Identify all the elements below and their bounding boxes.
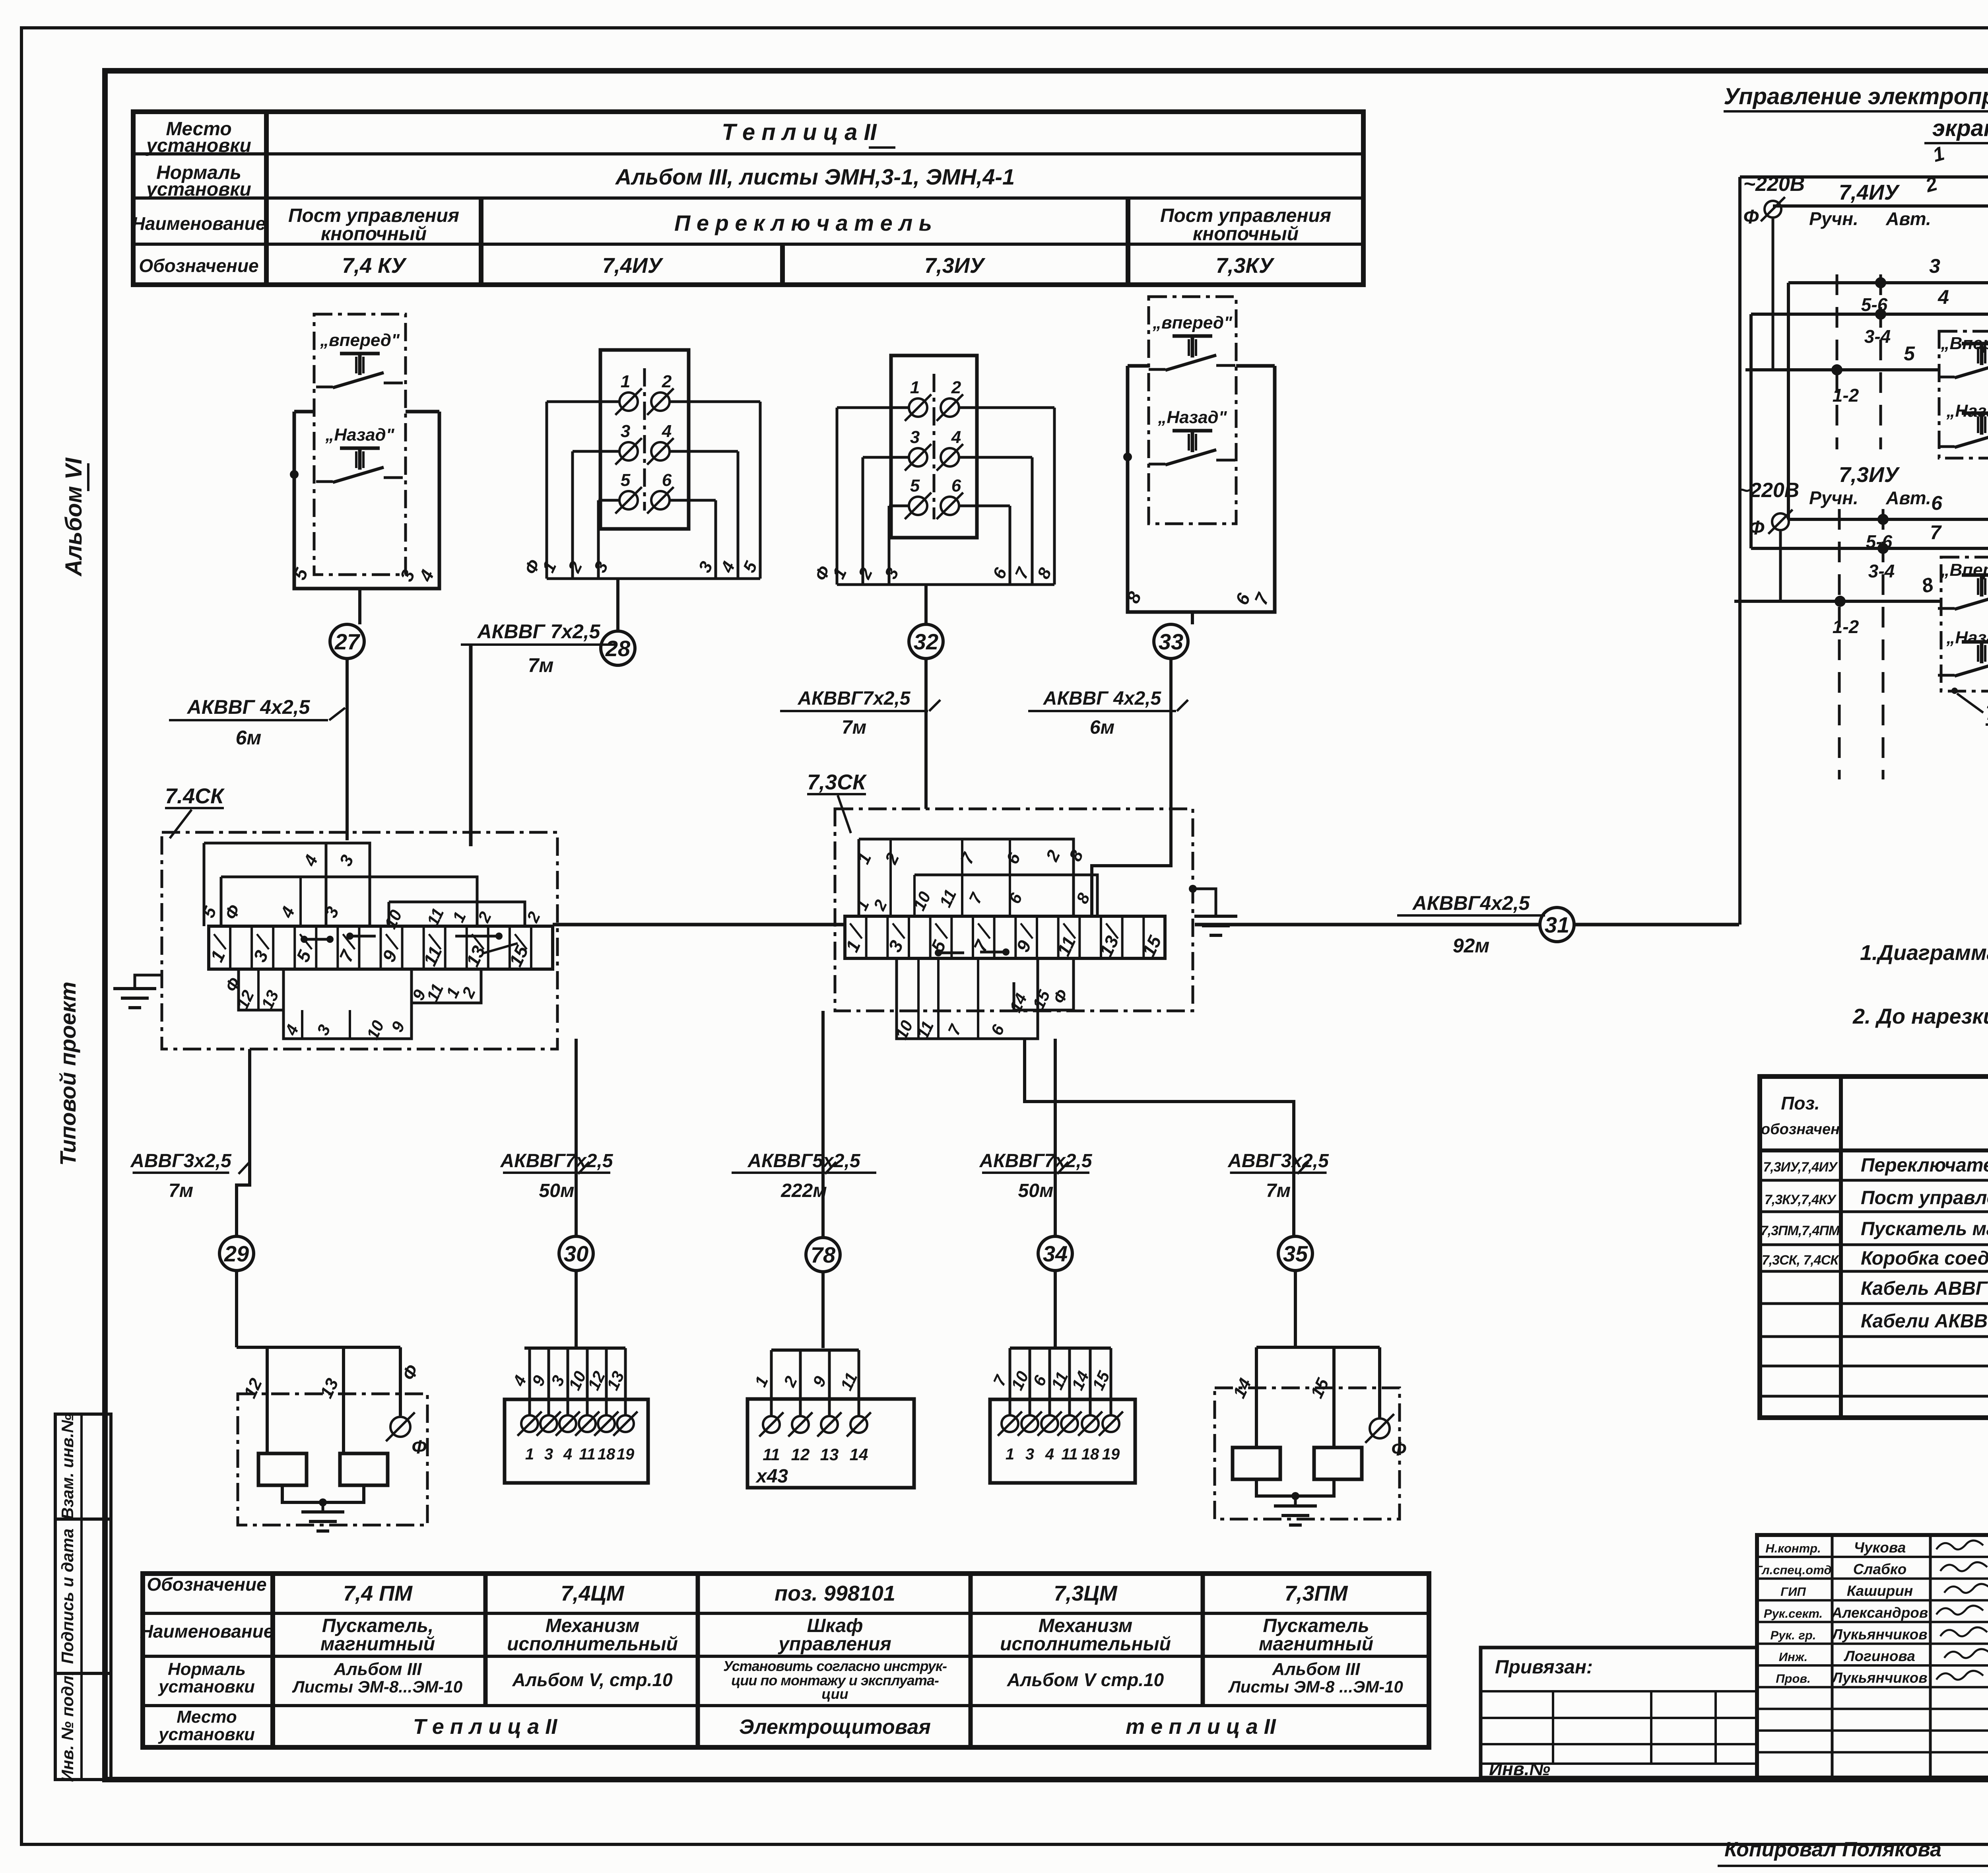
svg-text:19: 19 [617, 1446, 635, 1463]
svg-text:Пров.: Пров. [1776, 1672, 1811, 1686]
svg-text:АВВГ3х2,5: АВВГ3х2,5 [1227, 1150, 1329, 1172]
svg-text:Н.контр.: Н.контр. [1765, 1541, 1821, 1555]
svg-text:АКВВГ 4х2,5: АКВВГ 4х2,5 [1043, 688, 1162, 709]
svg-text:ции: ции [821, 1686, 848, 1702]
svg-text:7м: 7м [842, 717, 866, 738]
svg-text:3: 3 [910, 427, 920, 447]
svg-text:Коробка соединительная КСК-16: Коробка соединительная КСК-16ТУ36.1073-7… [1861, 1248, 1988, 1269]
svg-text:7м: 7м [528, 654, 554, 676]
svg-text:Кабель АВВГ 3х2,5 ГОСТ 1644: Кабель АВВГ 3х2,5 ГОСТ 16442-80 [1861, 1278, 1988, 1299]
svg-text:АВВГ3х2,5: АВВГ3х2,5 [130, 1150, 232, 1172]
svg-text:„вперед": „вперед" [1152, 313, 1233, 332]
svg-text:27: 27 [334, 629, 361, 654]
svg-text:7,4ИУ: 7,4ИУ [1839, 181, 1900, 204]
svg-text:экрана: экрана [1932, 115, 1988, 141]
svg-text:Авт.: Авт. [1885, 208, 1931, 229]
svg-text:Ф: Ф [1743, 206, 1759, 228]
svg-text:50м: 50м [1018, 1180, 1054, 1201]
svg-text:ГИП: ГИП [1780, 1585, 1806, 1599]
svg-text:установки: установки [158, 1677, 255, 1696]
svg-text:18: 18 [598, 1446, 615, 1463]
svg-text:Привязан:: Привязан: [1495, 1657, 1593, 1678]
svg-text:АКВВГ 7х2,5: АКВВГ 7х2,5 [477, 620, 601, 643]
svg-text:7,4ЦМ: 7,4ЦМ [561, 1582, 624, 1605]
svg-text:78: 78 [811, 1242, 836, 1267]
svg-text:АКВВГ5х2,5: АКВВГ5х2,5 [747, 1150, 860, 1172]
svg-text:Инв. № подл.: Инв. № подл. [58, 1671, 77, 1782]
svg-text:Место: Место [177, 1707, 237, 1727]
svg-text:4: 4 [951, 427, 961, 447]
svg-text:исполнительный: исполнительный [507, 1634, 678, 1655]
svg-text:Обозначение: Обозначение [147, 1574, 266, 1595]
svg-text:1-2: 1-2 [1833, 385, 1859, 406]
svg-text:7,3КУ: 7,3КУ [1216, 254, 1275, 278]
svg-text:Альбом III: Альбом III [1272, 1659, 1361, 1679]
svg-text:7,3ИУ,7,4ИУ: 7,3ИУ,7,4ИУ [1763, 1160, 1838, 1175]
svg-text:Инв.№: Инв.№ [1489, 1758, 1550, 1779]
svg-text:Обозначение: Обозначение [139, 255, 258, 276]
svg-text:5: 5 [910, 476, 920, 495]
svg-text:магнитный: магнитный [320, 1634, 435, 1655]
svg-text:7м: 7м [1266, 1180, 1291, 1201]
svg-text:1: 1 [621, 372, 630, 391]
svg-text:7,3ЦМ: 7,3ЦМ [1054, 1582, 1117, 1605]
svg-text:7,3ИУ: 7,3ИУ [1839, 463, 1900, 487]
svg-text:Пост управления кнопочный ПК: Пост управления кнопочный ПКЕ 222-2 [1861, 1187, 1988, 1209]
svg-text:7,3КУ: 7,3КУ [1986, 702, 1988, 724]
svg-text:поз. 998101: поз. 998101 [775, 1582, 895, 1605]
svg-text:7,4ИУ: 7,4ИУ [602, 254, 664, 278]
svg-text:50м: 50м [539, 1180, 575, 1201]
svg-text:1.Диаграмма работы переключате: 1.Диаграмма работы переключателей дана н… [1860, 941, 1988, 965]
svg-text:„Назад": „Назад" [1157, 408, 1227, 427]
svg-text:6м: 6м [236, 727, 262, 749]
svg-text:Поз.: Поз. [1781, 1093, 1819, 1113]
svg-text:6м: 6м [1090, 717, 1114, 738]
svg-text:6: 6 [1931, 492, 1943, 514]
svg-text:установки: установки [146, 179, 251, 200]
svg-text:Рук.сект.: Рук.сект. [1764, 1607, 1823, 1620]
svg-text:4: 4 [1045, 1446, 1054, 1463]
svg-text:Т е п л и ц а II: Т е п л и ц а II [722, 119, 877, 145]
svg-text:Альбом VI: Альбом VI [61, 457, 87, 577]
svg-text:Логинова: Логинова [1843, 1648, 1915, 1664]
svg-text:Листы ЭМ-8...ЭМ-10: Листы ЭМ-8...ЭМ-10 [292, 1677, 462, 1696]
svg-text:магнитный: магнитный [1259, 1634, 1373, 1655]
svg-text:4: 4 [662, 422, 672, 441]
svg-text:Электрощитовая: Электрощитовая [739, 1716, 931, 1739]
svg-text:2: 2 [951, 378, 961, 397]
svg-text:32: 32 [914, 629, 938, 654]
svg-text:кнопочный: кнопочный [321, 223, 427, 245]
svg-text:11: 11 [763, 1445, 780, 1464]
svg-text:7,4 ПМ: 7,4 ПМ [343, 1582, 413, 1605]
svg-text:11: 11 [1061, 1446, 1078, 1463]
svg-text:Альбом V стр.10: Альбом V стр.10 [1007, 1669, 1164, 1690]
svg-text:АКВВГ 4х2,5: АКВВГ 4х2,5 [186, 696, 311, 718]
svg-text:х43: х43 [755, 1466, 788, 1487]
svg-text:Слабко: Слабко [1853, 1561, 1907, 1578]
svg-text:12: 12 [791, 1445, 810, 1464]
svg-text:Переключатель пакетный ПКП25: Переключатель пакетный ПКП25- 44 -13- У2 [1861, 1155, 1988, 1176]
svg-text:3: 3 [544, 1446, 553, 1463]
svg-text:Нормаль: Нормаль [168, 1659, 246, 1679]
svg-text:30: 30 [564, 1241, 588, 1266]
svg-text:11: 11 [579, 1446, 596, 1463]
svg-text:Ручн.: Ручн. [1809, 208, 1858, 229]
svg-text:7м: 7м [169, 1180, 193, 1201]
svg-text:31: 31 [1545, 912, 1569, 937]
svg-text:28: 28 [605, 636, 631, 661]
svg-text:19: 19 [1102, 1446, 1120, 1463]
svg-text:34: 34 [1043, 1241, 1068, 1266]
svg-text:установки: установки [158, 1725, 255, 1744]
svg-text:кнопочный: кнопочный [1193, 223, 1299, 245]
svg-text:Гл.спец.отд: Гл.спец.отд [1755, 1563, 1831, 1577]
svg-text:обозначен: обозначен [1761, 1121, 1840, 1138]
svg-text:Чукова: Чукова [1854, 1539, 1906, 1556]
svg-text:~220В: ~220В [1738, 479, 1800, 502]
svg-text:5: 5 [621, 470, 631, 490]
svg-text:Каширин: Каширин [1847, 1583, 1913, 1599]
svg-text:Подпись и дата: Подпись и дата [58, 1529, 77, 1664]
svg-text:Наименование: Наименование [132, 213, 266, 234]
svg-text:АКВВГ7х2,5: АКВВГ7х2,5 [979, 1150, 1092, 1172]
svg-text:П е р е к л ю ч а т е л ь: П е р е к л ю ч а т е л ь [674, 210, 932, 235]
svg-text:управления: управления [778, 1634, 891, 1655]
svg-text:7,4 КУ: 7,4 КУ [342, 254, 407, 278]
svg-text:92м: 92м [1453, 935, 1490, 957]
svg-text:1: 1 [910, 378, 920, 397]
svg-text:7,3СК, 7,4СК: 7,3СК, 7,4СК [1762, 1253, 1839, 1268]
svg-text:7.4СК: 7.4СК [165, 784, 225, 808]
svg-text:7: 7 [1930, 521, 1942, 544]
svg-text:5: 5 [1904, 342, 1915, 365]
svg-text:Ф: Ф [412, 1437, 427, 1458]
svg-text:3: 3 [1025, 1446, 1034, 1463]
svg-text:„Назад": „Назад" [325, 425, 394, 445]
svg-text:Александров: Александров [1831, 1605, 1928, 1621]
svg-text:7,3ПМ: 7,3ПМ [1285, 1582, 1348, 1605]
svg-text:6: 6 [662, 470, 672, 490]
svg-text:Типовой проект: Типовой проект [55, 981, 80, 1166]
svg-text:АКВВГ4х2,5: АКВВГ4х2,5 [1412, 892, 1530, 914]
svg-text:Лукьянчиков: Лукьянчиков [1831, 1626, 1927, 1642]
svg-text:Наименование: Наименование [140, 1621, 274, 1642]
svg-text:Т е п л и ц а II: Т е п л и ц а II [413, 1715, 558, 1739]
svg-text:Лукьянчиков: Лукьянчиков [1831, 1670, 1927, 1686]
svg-text:222м: 222м [780, 1180, 827, 1201]
svg-text:Копировал Полякова: Копировал Полякова [1724, 1838, 1941, 1861]
svg-text:7,3ПМ,7,4ПМ: 7,3ПМ,7,4ПМ [1761, 1223, 1840, 1238]
svg-text:Ф: Ф [1391, 1439, 1406, 1460]
svg-text:3: 3 [1929, 255, 1940, 277]
svg-text:4: 4 [1938, 286, 1949, 308]
svg-text:Авт.: Авт. [1885, 488, 1931, 508]
svg-text:3: 3 [621, 422, 630, 441]
svg-text:установки: установки [146, 135, 251, 156]
svg-text:14: 14 [850, 1445, 868, 1464]
svg-text:18: 18 [1081, 1446, 1099, 1463]
svg-text:7,3КУ,7,4КУ: 7,3КУ,7,4КУ [1765, 1192, 1837, 1207]
svg-text:13: 13 [820, 1445, 839, 1464]
svg-text:1-2: 1-2 [1833, 616, 1859, 637]
svg-text:Установить согласно инструк-: Установить согласно инструк- [723, 1658, 947, 1674]
svg-text:29: 29 [224, 1241, 249, 1266]
svg-text:35: 35 [1283, 1241, 1308, 1266]
svg-text:„вперед": „вперед" [320, 330, 400, 350]
svg-text:АКВВГ7х2,5: АКВВГ7х2,5 [797, 688, 911, 709]
svg-text:исполнительный: исполнительный [1000, 1634, 1171, 1655]
svg-text:Инж.: Инж. [1779, 1650, 1807, 1664]
svg-text:1: 1 [525, 1446, 534, 1463]
svg-text:т е п л и ц а II: т е п л и ц а II [1126, 1715, 1276, 1739]
svg-text:2. До нарезки кабелей длины: 2. До нарезки кабелей длины трасс уточни… [1852, 1005, 1988, 1028]
svg-text:Пускатель магнитный: Пускатель магнитный [1861, 1218, 1988, 1240]
svg-text:АКВВГ7х2,5: АКВВГ7х2,5 [500, 1150, 613, 1172]
svg-text:7,3ИУ: 7,3ИУ [924, 254, 986, 278]
svg-text:Взам. инв.№: Взам. инв.№ [58, 1414, 77, 1519]
svg-text:Управление электроприводами: Управление электроприводами теплозащитно… [1724, 84, 1988, 109]
svg-text:3-4: 3-4 [1864, 326, 1891, 347]
svg-text:Кабели АКВВГ ГОСТ 1508-: Кабели АКВВГ ГОСТ 1508-78 [1861, 1311, 1988, 1332]
svg-text:7,3СК: 7,3СК [807, 770, 867, 794]
svg-text:4: 4 [563, 1446, 572, 1463]
svg-text:Альбом V, стр.10: Альбом V, стр.10 [512, 1669, 673, 1690]
svg-text:Ручн.: Ручн. [1809, 488, 1858, 508]
svg-text:2: 2 [662, 372, 672, 391]
svg-text:3-4: 3-4 [1868, 561, 1895, 581]
svg-text:1: 1 [1006, 1446, 1014, 1463]
svg-text:6: 6 [951, 476, 961, 495]
svg-text:Рук. гр.: Рук. гр. [1771, 1628, 1816, 1642]
svg-text:Листы ЭМ-8 ...ЭМ-10: Листы ЭМ-8 ...ЭМ-10 [1228, 1677, 1403, 1696]
svg-text:Альбом III, листы ЭМН,3-1,: Альбом III, листы ЭМН,3-1, ЭМН,4-1 [615, 164, 1015, 189]
svg-text:33: 33 [1159, 629, 1183, 654]
svg-text:Альбом III: Альбом III [334, 1659, 422, 1679]
